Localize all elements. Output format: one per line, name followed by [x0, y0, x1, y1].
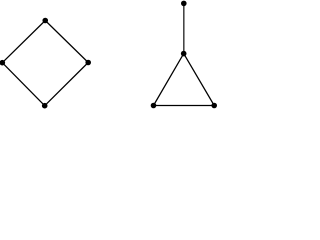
- wire: [154, 54, 184, 106]
- node A: [42, 18, 48, 24]
- node B: [0, 60, 5, 66]
- node G: [151, 103, 157, 109]
- node F: [181, 51, 187, 57]
- wire: [45, 21, 88, 63]
- node C: [85, 60, 91, 66]
- node E: [181, 1, 187, 7]
- wire: [184, 54, 215, 106]
- node H: [211, 103, 217, 109]
- wire: [154, 105, 215, 107]
- wire: [45, 63, 88, 106]
- wire: [183, 3, 185, 53]
- wire: [2, 21, 45, 63]
- wire: [2, 63, 44, 106]
- node D: [42, 103, 48, 109]
